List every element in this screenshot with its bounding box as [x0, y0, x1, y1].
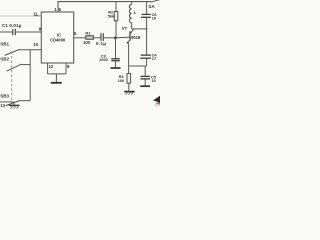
- svg-text:10: 10: [152, 16, 156, 21]
- wire SB3 to bus: [20, 100, 30, 102]
- wire pin11 (faint): [0, 15, 41, 17]
- wire C1 left lead: [0, 31, 12, 33]
- switch SB1: [5, 49, 20, 55]
- svg-text:SB3: SB3: [0, 94, 9, 99]
- svg-text:SA: SA: [148, 4, 155, 9]
- svg-text:11: 11: [33, 11, 38, 16]
- wire R1 to C2: [93, 37, 100, 39]
- node junction A: [114, 37, 117, 40]
- resistor R2: [114, 12, 118, 21]
- wire C6 to collector node: [146, 18, 148, 29]
- wire pin12: [47, 63, 49, 74]
- capacitor C4: [141, 54, 151, 56]
- wire rail to C4: [146, 29, 148, 55]
- wire collector to right rail: [132, 28, 147, 30]
- wire C2 to junction: [104, 37, 116, 39]
- ground (C5): [140, 85, 150, 87]
- wire net 13: [0, 101, 14, 103]
- svg-text:SB2: SB2: [0, 57, 9, 62]
- wire pin10: [19, 49, 41, 51]
- svg-text:CD4060: CD4060: [50, 38, 66, 43]
- page corner mark: [153, 96, 160, 103]
- ground (C3): [111, 67, 121, 69]
- inductor L: [131, 2, 133, 5]
- ground (pins 12,8): [55, 74, 57, 82]
- wire pins 12-8 join: [48, 73, 66, 75]
- svg-text:SB1: SB1: [0, 41, 9, 46]
- svg-text:12: 12: [49, 64, 54, 69]
- resistor R3: [127, 74, 131, 84]
- svg-text:9018: 9018: [131, 35, 141, 40]
- capacitor C1: [12, 29, 14, 35]
- svg-text:100: 100: [118, 78, 125, 83]
- wire right rail top: [146, 2, 148, 14]
- wire L to collector: [131, 23, 133, 29]
- wire C1 to pin9: [16, 31, 42, 33]
- svg-text:17: 17: [152, 56, 156, 61]
- wire pin5 to R1: [74, 37, 86, 39]
- switch SB3: [6, 100, 20, 105]
- switch SA: [151, 0, 160, 2]
- wire rail to R2: [115, 2, 117, 12]
- wire R2 to junction: [115, 21, 117, 38]
- IC U1 CD4060 box: [41, 12, 73, 63]
- wire base: [115, 36, 129, 39]
- svg-text:C1 0.01μ: C1 0.01μ: [2, 23, 22, 28]
- wire emitter down: [128, 43, 130, 74]
- capacitor C3: [111, 58, 120, 60]
- svg-text:13: 13: [0, 103, 5, 108]
- svg-text:1000: 1000: [99, 57, 109, 62]
- capacitor C2: [100, 33, 102, 41]
- wire C4 to emitter rail: [146, 59, 148, 66]
- wire emitter branch right: [129, 65, 147, 67]
- wire switch bus: [29, 50, 31, 101]
- wire top VDD rail: [58, 1, 152, 3]
- wire C5 to ground: [144, 79, 146, 85]
- svg-text:R1: R1: [85, 31, 91, 36]
- svg-text:16: 16: [54, 7, 63, 12]
- ground (net 13): [13, 102, 15, 105]
- wire SB2 to bus: [21, 64, 30, 66]
- dashed gang linkage: [11, 52, 13, 104]
- resistor R1: [86, 36, 94, 40]
- capacitor C6: [142, 13, 151, 15]
- svg-text:100: 100: [83, 40, 91, 45]
- wire pin16 drop: [57, 2, 59, 13]
- wire C5 top lead: [144, 66, 146, 76]
- svg-text:VT: VT: [122, 26, 128, 31]
- capacitor C5: [140, 75, 150, 77]
- wire pin8: [65, 63, 67, 74]
- wire C3 to ground: [115, 61, 117, 67]
- switch SB2: [7, 64, 22, 71]
- wire R3 to ground: [128, 83, 130, 91]
- svg-text:10: 10: [33, 42, 38, 47]
- transistor VT: [129, 31, 131, 40]
- svg-text:0.1μ: 0.1μ: [96, 41, 106, 46]
- svg-text:L: L: [134, 10, 137, 15]
- svg-text:56k: 56k: [108, 13, 115, 18]
- ground (R3): [124, 91, 134, 93]
